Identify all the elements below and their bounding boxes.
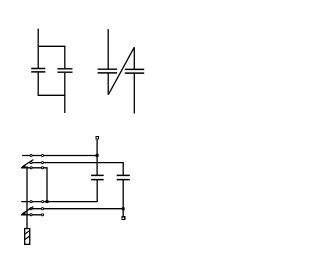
capacitor C4 [125,69,144,73]
L1 hatch stroke 1 [25,230,30,234]
capacitor C1 [31,69,45,72]
junction on line E [122,207,125,210]
contact A1 [30,154,32,156]
wire left branch lower [37,73,39,96]
contact A2 [41,154,43,156]
contact D2 [41,201,43,203]
contact D1 [30,201,32,203]
capacitor C6 [117,175,130,179]
wire contact line C [21,167,48,169]
switch S1b wiper arrow [22,207,33,214]
wire contact line E [29,208,123,210]
capacitor C2 [57,69,72,72]
terminal X2 [121,216,125,220]
wire C5 bottom to line D [21,180,98,202]
wire top lead [37,29,39,47]
wire bottom horizontal [38,94,66,96]
junction on line D [46,200,49,203]
wire contact line F [21,214,44,216]
wire X1 down to C5 [96,140,98,175]
wire left branch upper [37,46,39,68]
contact E2 [41,208,43,210]
contact B1 [30,162,32,164]
L1 hatch stroke 2 [25,236,30,240]
wiper stem wire down to coil [26,166,28,228]
terminal X1 [95,136,99,140]
wire top horizontal [38,45,66,47]
wire right lower lead [133,74,135,114]
contact E1 [30,208,32,210]
gang coupling diagonal [108,47,134,94]
contact F1 [30,214,32,216]
wire right branch upper [64,46,66,68]
inductor L1 hatched box [25,229,30,245]
wire C corner down to line D [46,168,48,202]
wire right upper lead [133,47,135,69]
junction on line A [96,154,99,157]
contact C1 [30,167,32,169]
wire bottom tail [64,95,66,113]
wire contact line B [29,162,124,164]
wire left lead [107,29,109,69]
wire right branch lower [64,73,66,96]
switch S1a wiper arrow [22,160,33,167]
contact B2 [41,162,43,164]
capacitor C3 [98,69,118,73]
capacitor C5 [91,175,104,179]
wire contact line A [22,155,97,157]
contact F2 [41,214,43,216]
wire C6 bottom down to terminal X2 [122,180,124,216]
wire left lower lead [107,73,109,94]
contact C2 [41,167,43,169]
wire B corner down to C6 [122,163,124,175]
